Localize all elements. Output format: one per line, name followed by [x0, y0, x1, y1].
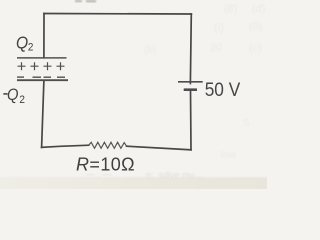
- wire left upper: [43, 14, 45, 58]
- wire right lower: [190, 90, 193, 150]
- svg-text:(0): (0): [249, 21, 262, 33]
- wire bottom right: [127, 146, 191, 150]
- svg-text:Q: Q: [16, 32, 28, 52]
- capacitor positive charges + + + +: [18, 62, 65, 70]
- battery B long plate: [178, 81, 203, 83]
- resistor R zigzag: [89, 142, 127, 148]
- svg-text:n:. sdive mu...: n:. sdive mu...: [146, 170, 202, 180]
- label -Q2: [3, 86, 25, 106]
- wire stub below battery top plate: [189, 82, 191, 85]
- wire top: [44, 13, 191, 16]
- circuit loop wires: [42, 14, 192, 150]
- wire left lower: [42, 81, 44, 148]
- svg-text:R=10Ω: R=10Ω: [76, 155, 135, 175]
- svg-text:(8): (8): [224, 3, 237, 15]
- svg-text:(b): (b): [144, 45, 156, 56]
- label Q2: [16, 32, 33, 54]
- ghost marks bottom band: [86, 169, 202, 180]
- battery B short plate: [184, 88, 197, 91]
- svg-text:lnw: lnw: [221, 150, 237, 161]
- svg-text:S: S: [243, 118, 250, 129]
- svg-text:(i): (i): [214, 22, 224, 34]
- label 50 V: [205, 79, 241, 100]
- bottom scan band: [0, 177, 270, 192]
- wire right upper: [189, 14, 192, 82]
- ghost bleed-through text right side: [144, 3, 265, 161]
- svg-text:Q: Q: [7, 86, 19, 104]
- paper background: [0, 0, 267, 189]
- capacitor C top plate: [17, 57, 67, 59]
- wire bottom left: [42, 145, 89, 147]
- svg-text:50 V: 50 V: [205, 79, 241, 100]
- svg-text:2: 2: [19, 93, 25, 106]
- svg-text:2: 2: [28, 41, 34, 54]
- svg-text:(c): (c): [249, 42, 262, 54]
- capacitor negative charges - - - -: [17, 76, 65, 78]
- cropped text fragment top: [75, 0, 96, 2]
- svg-text:(d): (d): [252, 3, 265, 15]
- capacitor C bottom plate: [17, 79, 68, 81]
- svg-text:20: 20: [210, 42, 222, 54]
